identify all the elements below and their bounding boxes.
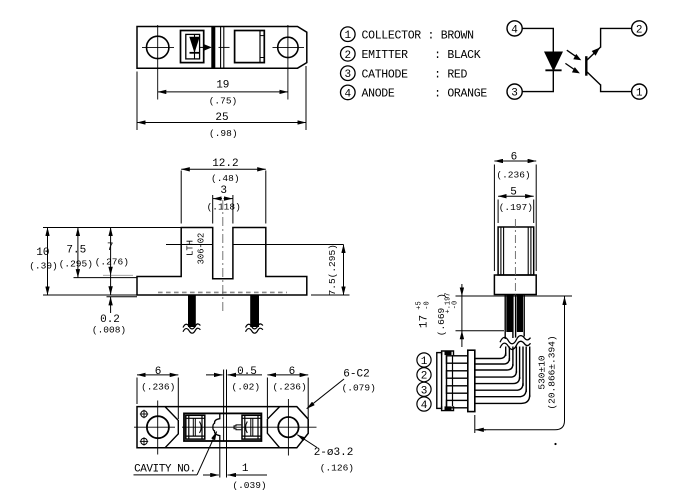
front view body outline [137, 228, 307, 296]
extension line standoff [107, 296, 138, 298]
extension line lead end [456, 330, 505, 332]
detector box stub bottom [260, 57, 264, 59]
svg-text:LTH: LTH [186, 240, 196, 256]
svg-text:(20.866±.394): (20.866±.394) [547, 335, 558, 409]
emitter bottom box [186, 415, 205, 439]
connector top tab [442, 351, 454, 355]
extension line connector corner [474, 415, 476, 433]
wire break symbol [500, 335, 532, 347]
wire verticals below break [505, 347, 507, 357]
node 4 circle [507, 21, 522, 36]
svg-text:(.39): (.39) [29, 261, 58, 272]
dim right 6 line [267, 374, 308, 376]
centerline horizontal middle [219, 46, 230, 48]
wire 1 bend [475, 353, 506, 359]
tower inner line a [500, 227, 502, 275]
wire column 2 outline [515, 295, 517, 338]
Q1 emitter diagonal [586, 47, 600, 61]
wire 2 bend [475, 364, 513, 370]
LED D1 cathode bar [545, 69, 561, 71]
datum mark bottom [141, 438, 147, 444]
extension line base bottom left [43, 294, 137, 296]
dimension 3 extension left [212, 195, 214, 224]
svg-text:1: 1 [421, 356, 428, 368]
dimension 12.2 extension right [265, 171, 267, 224]
svg-text:(.236): (.236) [141, 381, 175, 392]
svg-text:1: 1 [344, 30, 351, 42]
front view recess dashed line [158, 291, 287, 293]
schematic pin digits [511, 24, 643, 99]
svg-text:1: 1 [242, 463, 249, 475]
slot centerline dash-dot [222, 200, 224, 312]
stray dot [554, 443, 556, 445]
dimension 5 extension lines [497, 200, 499, 224]
connector tooth 4 [447, 400, 468, 407]
svg-text:(.48): (.48) [211, 173, 240, 184]
svg-text:6: 6 [289, 366, 296, 378]
wire column 1 outline [504, 295, 506, 340]
svg-text:(.02): (.02) [232, 381, 261, 392]
svg-text:(.008): (.008) [92, 325, 126, 336]
leader 2-ø3.2 [297, 435, 317, 448]
centerline horizontal left hole [142, 46, 174, 48]
dimension 17 lower arrow [461, 331, 463, 347]
connector left wall [437, 353, 442, 409]
pin label circle 1 [341, 27, 356, 42]
side view centerline [514, 219, 516, 296]
svg-text:-0: -0 [452, 301, 460, 309]
connector mid bar [446, 355, 448, 406]
cavity outline [213, 413, 220, 441]
extension line base top left [74, 277, 138, 279]
svg-text:EMITTER : BLACK: EMITTER : BLACK [362, 49, 481, 62]
extension line tower top left [43, 227, 181, 229]
svg-text:5: 5 [510, 187, 517, 199]
emitter box inner [186, 34, 200, 59]
dim 1 arrows [203, 474, 219, 476]
emitter diode triangle [190, 37, 199, 51]
detector box stub top [260, 35, 264, 37]
centerline vertical right [287, 399, 289, 456]
dimension 530 line with corner [478, 301, 565, 430]
svg-text:(.118): (.118) [207, 201, 241, 212]
slot line a [220, 27, 222, 69]
tower inner line c [527, 227, 529, 275]
connector tooth 3 [447, 386, 468, 393]
svg-text:1: 1 [636, 88, 643, 100]
extension-through lines 0.5/1 [223, 370, 225, 442]
detector box outer [235, 31, 265, 63]
emitter diode cathode bar [190, 52, 200, 54]
dimension 6 extension lines [493, 165, 495, 272]
dimension 25 line [137, 122, 306, 124]
slot line b [223, 27, 225, 69]
lead right break squiggle [246, 324, 263, 329]
svg-text:-0: -0 [424, 301, 432, 309]
connector bottom tab [442, 406, 454, 410]
pin circle 4 [417, 397, 431, 411]
svg-text:+5: +5 [416, 301, 424, 309]
cavity underline [134, 474, 198, 476]
wire column 1 black fill [506, 295, 512, 333]
svg-text:(.126): (.126) [320, 462, 354, 473]
svg-text:6: 6 [155, 366, 162, 378]
wire emitter to pin2 [601, 28, 632, 47]
Q1 emitter arrowhead [592, 48, 600, 56]
svg-text:CATHODE : RED: CATHODE : RED [362, 68, 468, 81]
svg-text:19: 19 [216, 80, 229, 92]
datum mark top [141, 411, 147, 417]
dimension 17 line [461, 296, 463, 331]
dimension 3 extension right [232, 195, 234, 224]
svg-text:7: 7 [107, 242, 114, 254]
pin circle 3 [417, 382, 431, 396]
dimension 6 line [494, 160, 536, 162]
dimension 3 arrows [213, 198, 222, 200]
wire 4 bend [475, 389, 526, 397]
dim 0.5 arrows [206, 374, 223, 376]
lead right (black) [250, 295, 259, 327]
connector tooth 2 [447, 371, 468, 378]
pin label circle 2 [341, 47, 356, 62]
pin circle 1 [417, 353, 431, 367]
mounting hole right [278, 37, 298, 57]
tower inner line d [530, 227, 532, 275]
lead left break squiggle [183, 324, 200, 329]
svg-text:(.295): (.295) [59, 259, 93, 270]
LED D1 triangle [545, 52, 562, 70]
svg-text:25: 25 [215, 112, 228, 124]
svg-text:7.5: 7.5 [66, 245, 86, 257]
svg-text:2: 2 [636, 24, 643, 36]
emitter box outer [181, 31, 204, 63]
light arrow 2 [565, 63, 575, 70]
right boss [267, 407, 279, 448]
left notch [165, 407, 178, 448]
light arrow 1 [567, 50, 577, 57]
centerline horizontal right hole [273, 46, 305, 48]
centerline vertical left hole [157, 25, 159, 100]
svg-text:0.5: 0.5 [237, 366, 257, 378]
bottom hole right [278, 417, 298, 437]
detector bottom box [242, 415, 261, 439]
dimension 17 upper arrow [461, 284, 463, 296]
svg-text:COLLECTOR : BROWN: COLLECTOR : BROWN [362, 29, 474, 42]
svg-text:7.5(.295): 7.5(.295) [327, 244, 338, 295]
dimension 12.2 extension left [180, 171, 182, 224]
pin circle 2 [417, 368, 431, 382]
svg-text:3: 3 [220, 185, 227, 197]
svg-text:6-C2: 6-C2 [343, 368, 369, 380]
svg-text:10: 10 [36, 247, 49, 259]
centerline horizontal left [134, 426, 175, 428]
svg-text:(.197): (.197) [499, 202, 533, 213]
svg-text:4: 4 [511, 24, 518, 36]
dim left 6 extensions [136, 378, 138, 405]
svg-text:(.079): (.079) [342, 382, 376, 393]
svg-text:2: 2 [421, 371, 428, 383]
node 3 circle [507, 84, 522, 99]
emitter nub stem [200, 46, 205, 48]
emitter nub arrow [205, 45, 211, 50]
connector tooth 1 [447, 356, 468, 363]
front view mid feature line [166, 244, 213, 246]
leader 6-C2 [307, 379, 344, 409]
extension line collar bottom [456, 295, 573, 297]
middle box [184, 413, 261, 441]
wire column 2 black fill [517, 295, 523, 333]
wire cathode to pin3 [522, 70, 553, 91]
connector housing front bar [468, 350, 475, 411]
extension line 7 (gray) [103, 274, 133, 276]
dimension 19 line [158, 91, 288, 93]
centerline vertical left [157, 401, 159, 455]
cavity leader [197, 432, 217, 475]
svg-text:6: 6 [511, 152, 518, 164]
wire 3 bend [475, 377, 520, 384]
dimension 0.2 lower arrow [110, 297, 112, 313]
svg-text:(.98): (.98) [209, 128, 238, 139]
svg-text:4: 4 [421, 400, 428, 412]
emitter diode vertical line [194, 34, 196, 59]
node 1 circle [632, 84, 647, 99]
svg-text:2-ø3.2: 2-ø3.2 [314, 447, 354, 459]
svg-text:): ) [436, 293, 447, 299]
bottom view body outline [137, 407, 308, 448]
svg-text:(.236): (.236) [496, 169, 530, 180]
svg-text:3: 3 [511, 88, 518, 100]
mounting hole left [147, 36, 169, 58]
pin label circle 4 [341, 85, 356, 100]
dimension 25 extension right [305, 66, 307, 130]
dimension right 7.5 line [343, 245, 345, 296]
dimension 25 extension left [136, 72, 138, 131]
centerline vertical right hole [287, 25, 289, 100]
window tick [234, 425, 241, 430]
svg-text:(.75): (.75) [209, 96, 238, 107]
extension line right 7.5 bottom [311, 294, 350, 296]
side view collar [494, 275, 536, 295]
node 2 circle [632, 21, 647, 36]
top view body outline [137, 27, 307, 69]
dim right 6 extensions [266, 378, 268, 419]
svg-text:(.236): (.236) [272, 381, 306, 392]
pin label circle 3 [341, 66, 356, 81]
center slot wall (filled band) [211, 27, 215, 69]
side view tower [498, 227, 534, 275]
svg-text:(.039): (.039) [232, 480, 266, 491]
svg-text:CAVITY NO.: CAVITY NO. [134, 463, 196, 475]
dimension 0.2 upper arrow [110, 275, 112, 295]
dim left 6 line [137, 374, 178, 376]
svg-text:4: 4 [344, 88, 351, 100]
svg-text:2: 2 [344, 50, 351, 62]
wire collector to pin1 [601, 84, 632, 91]
svg-text:17: 17 [419, 315, 431, 328]
svg-text:306-02: 306-02 [197, 233, 207, 265]
wire anode from pin4 [522, 28, 553, 52]
svg-text:12.2: 12.2 [212, 158, 238, 170]
detector box inner vertical [259, 31, 261, 63]
svg-text:ANODE : ORANGE: ANODE : ORANGE [362, 88, 488, 101]
svg-text:3: 3 [344, 69, 351, 81]
dimension 7 line [110, 228, 112, 276]
dimension 7.5 line [77, 228, 79, 278]
svg-text:(.276): (.276) [95, 257, 129, 268]
phototransistor Q1 base bar [585, 56, 587, 75]
svg-text:3: 3 [421, 385, 428, 397]
tower inner line b [503, 227, 505, 275]
bottom hole left [147, 416, 169, 438]
dimension 10 line [47, 228, 49, 296]
lead left (black) [188, 295, 196, 327]
dimension 12.2 line [181, 168, 266, 170]
centerline horizontal right [182, 426, 317, 428]
dimension 5 line [498, 195, 534, 197]
Q1 collector diagonal [586, 71, 600, 85]
